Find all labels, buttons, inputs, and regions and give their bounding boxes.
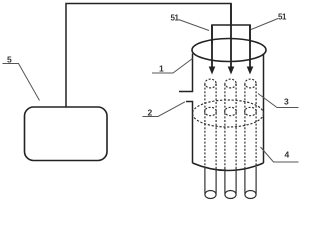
arrow middle <box>228 4 235 75</box>
vessel bottom arc <box>193 163 264 171</box>
plate ellipse (dashed) <box>193 100 264 127</box>
wire pipe from box 5 to lid <box>66 4 231 108</box>
label 1 <box>152 59 193 74</box>
svg-text:1: 1 <box>159 64 164 74</box>
lid 51 (distributor box) <box>212 25 250 44</box>
arrow right <box>247 25 254 75</box>
vessel right wall <box>263 54 265 164</box>
svg-text:51: 51 <box>171 14 180 23</box>
label 2 <box>143 102 186 118</box>
vessel 1 top ellipse <box>192 39 266 62</box>
label 5 <box>3 55 40 101</box>
tube 2 (dashed) <box>225 79 237 198</box>
label 51 right <box>251 13 287 30</box>
svg-text:4: 4 <box>285 150 290 160</box>
box 5 (tank) <box>25 107 108 161</box>
label 51 left <box>171 14 210 31</box>
label 3 <box>258 94 299 108</box>
vessel left wall <box>179 54 193 164</box>
arrow left <box>209 25 216 75</box>
tube 3 (dashed) <box>245 79 257 198</box>
svg-text:51: 51 <box>278 13 287 22</box>
tube 1 (dashed) <box>205 79 217 198</box>
label 4 <box>261 147 299 162</box>
svg-text:3: 3 <box>284 97 289 107</box>
